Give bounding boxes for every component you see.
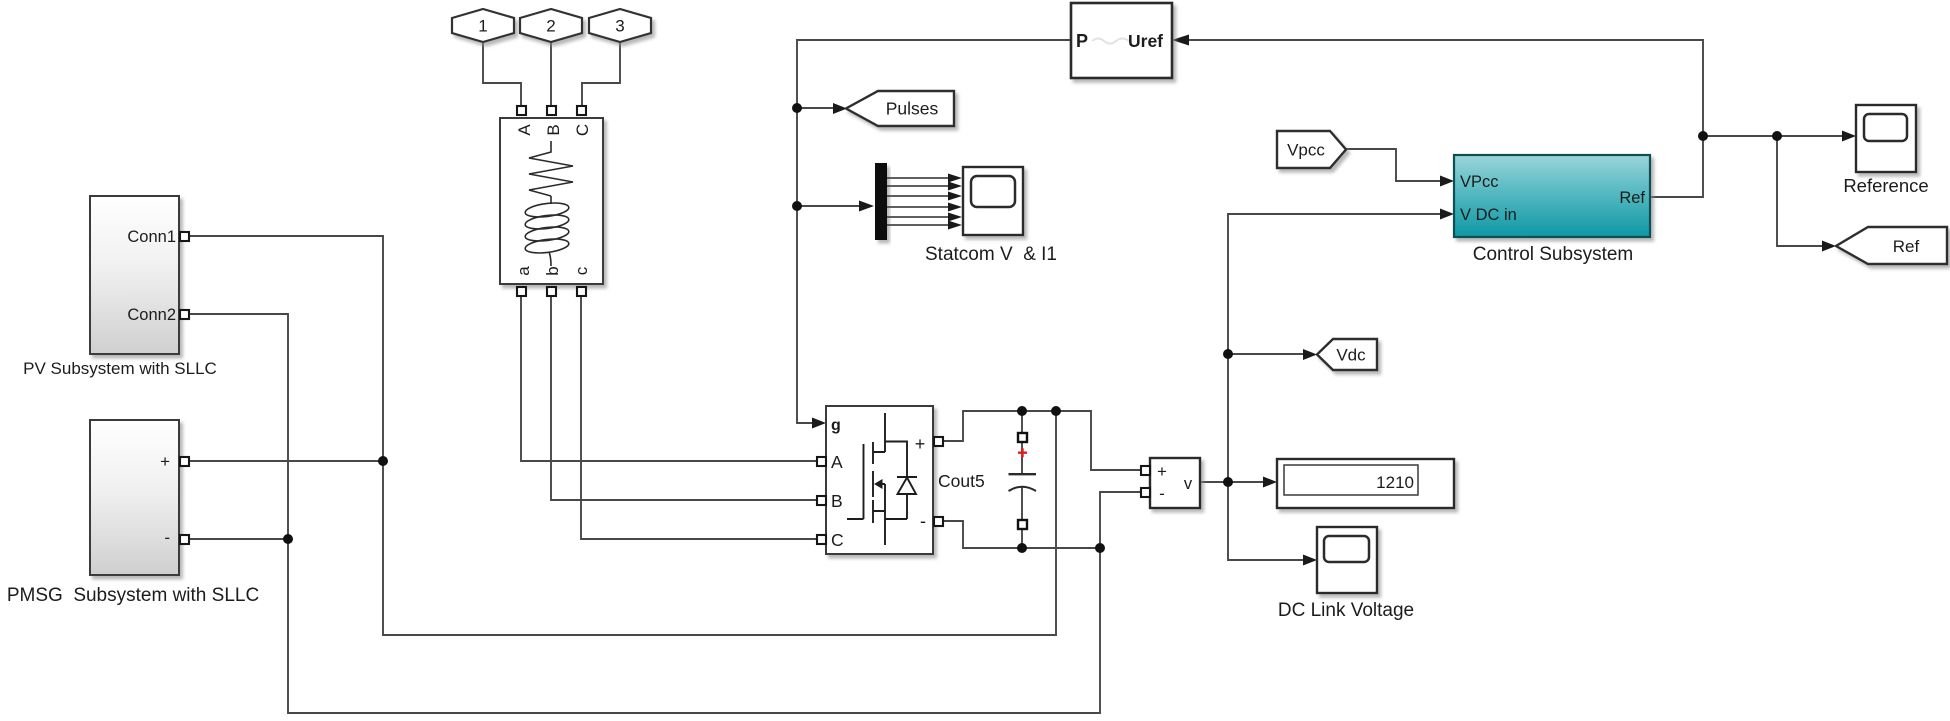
wire: riser to V DC in [1228,214,1441,482]
svg-text:V DC in: V DC in [1460,206,1517,224]
svg-text:A: A [515,124,534,136]
svg-text:Ref: Ref [1893,237,1920,256]
wire: Uref output down to bridge g [797,40,1071,423]
wire: PMSG - to node [188,538,288,540]
port pad bridge + [934,437,943,446]
resistor icon [529,141,573,196]
svg-text:b: b [543,266,562,275]
junction node Conn1/PMSG+ [378,456,388,466]
junction node voltmeter output [1223,477,1233,487]
wire: inport 3 to transformer C [582,42,620,108]
svg-text:B: B [544,124,563,135]
arrowhead into Ref tag [1822,241,1836,252]
inport 1 [452,9,514,42]
svg-text:Control Subsystem: Control Subsystem [1473,244,1634,265]
arrowhead into V DC in port [1440,209,1454,220]
port pad voltmeter - [1141,488,1150,497]
Control Subsystem block [1454,155,1650,265]
Vpcc from tag [1277,131,1346,168]
arrowhead into Vdc tag [1303,349,1317,360]
port pad transformer C [577,106,586,115]
junction node Ref/Uref [1698,131,1708,141]
svg-text:B: B [831,491,843,511]
arrowhead into display [1263,477,1277,488]
svg-text:DC Link Voltage: DC Link Voltage [1278,600,1414,621]
arrowhead into Reference scope [1842,131,1856,142]
display block [1277,459,1454,508]
Reference scope [1843,105,1928,196]
wire: branch to Vdc tag [1228,353,1304,355]
wire: inport 2 to transformer B [550,42,552,108]
wire: transformer c to bridge C [581,292,817,539]
svg-text:Cout5: Cout5 [938,471,985,491]
port pad PMSG - [180,535,189,544]
port pad PMSG + [180,457,189,466]
arrowhead into VPcc port [1440,176,1454,187]
three-phase series RL branch block [500,106,603,296]
port pad bridge B [817,496,826,505]
arrowhead into Pulses tag [833,103,847,114]
port pad transformer b [547,287,556,296]
svg-text:PV Subsystem with SLLC: PV Subsystem with SLLC [23,359,217,378]
svg-text:Conn2: Conn2 [127,306,176,324]
capacitor Cout5 [938,433,1036,529]
junction node capacitor top [1017,406,1027,416]
port pad voltmeter + [1141,466,1150,475]
wire: inport 1 to transformer A [483,42,521,108]
capacitor bottom plate arc [1009,487,1037,491]
svg-text:Uref: Uref [1128,31,1163,51]
svg-text:+: + [160,452,170,471]
Statcom V & I1 scope [925,167,1057,265]
junction node Conn2/PMSG- [283,534,293,544]
PMSG subsystem block [7,420,259,606]
svg-text:Vpcc: Vpcc [1287,141,1325,160]
svg-text:v: v [1184,475,1193,493]
port pad Conn1 [180,232,189,241]
wire: branch to Statcom mux [797,205,860,207]
port pad capacitor top [1018,433,1027,442]
svg-text:-: - [920,511,926,531]
Uref block [1071,3,1172,78]
Pulses goto tag [846,91,954,126]
svg-text:P: P [1076,31,1088,51]
svg-text:+: + [915,434,926,454]
svg-text:1: 1 [478,17,487,36]
IGBT bridge block [817,406,943,554]
wire: voltmeter output to display [1200,481,1264,483]
svg-text:C: C [831,530,844,550]
capacitor leads [1021,442,1023,520]
arrowhead into Uref block right side [1172,35,1189,46]
mux output signals [887,178,949,225]
svg-text:Vdc: Vdc [1336,346,1366,365]
IGBT icon [847,413,917,545]
wire: bridge + to capacitor top rail [942,411,1141,470]
svg-text:Statcom V & I1: Statcom V & I1 [925,244,1057,265]
svg-text:PMSG Subsystem with SLLC: PMSG Subsystem with SLLC [7,585,259,606]
port pad capacitor bottom [1018,520,1027,529]
junction node DC- bus bottom [1095,543,1105,553]
svg-text:1210: 1210 [1376,473,1414,492]
port pad bridge C [817,535,826,544]
svg-text:c: c [572,266,591,275]
Ref goto tag [1836,227,1947,264]
wire: Ref output up to Uref block [1189,40,1703,197]
svg-text:Pulses: Pulses [886,99,939,119]
wire: node to Reference scope [1703,135,1843,137]
wire: PMSG + to node [188,460,383,462]
port pad transformer c [577,287,586,296]
junction node DC+ bus top [1051,406,1061,416]
wire: node down to Ref tag [1777,136,1823,246]
svg-text:-: - [164,528,170,547]
wire: capacitor bottom lead [1021,530,1023,548]
svg-text:C: C [573,124,592,136]
svg-text:Conn1: Conn1 [127,228,176,246]
wire: capacitor top lead [1021,411,1023,432]
svg-text:VPcc: VPcc [1460,173,1499,191]
svg-text:a: a [514,266,533,276]
wire: branch to Pulses tag [797,107,834,109]
port pad bridge A [817,457,826,466]
arrowhead into Statcom mux [859,201,874,212]
junction node Reference/Ref split [1772,131,1782,141]
svg-text:3: 3 [615,17,624,36]
port pad transformer a [517,287,526,296]
voltage measurement block [1141,458,1200,508]
svg-text:A: A [831,452,843,472]
junction node Vdc branch [1223,349,1233,359]
junction node Statcom branch [792,201,802,211]
svg-text:g: g [831,417,841,434]
wire: Conn2 to DC- bus [188,314,1100,713]
wire: transformer b to bridge B [551,292,817,500]
port pad transformer A [517,106,526,115]
arrowhead into DC Link Voltage scope [1303,555,1317,566]
wire: branch to DC Link Voltage scope [1228,482,1304,560]
wire: Vpcc tag to VPcc input [1346,149,1441,181]
IGBT emitter arrow [874,479,883,489]
wire: Conn1 to DC+ bus [188,236,1056,635]
arrowhead into bridge g [812,418,826,429]
inport 2 [520,9,582,42]
inductor icon [524,196,569,266]
DC Link Voltage scope [1278,527,1414,621]
PV subsystem block [23,196,217,378]
port pad bridge - [934,517,943,526]
wire: voltmeter - to bottom rail [1100,492,1141,548]
svg-text:2: 2 [546,17,555,36]
port pad transformer B [547,106,556,115]
Statcom mux bar [875,163,887,240]
junction node Pulses branch [792,103,802,113]
inport 3 [589,9,651,42]
mux to scope arrowheads [948,174,962,230]
wire: transformer a to bridge A [521,292,817,461]
svg-text:-: - [1159,484,1165,503]
svg-text:Ref: Ref [1619,189,1645,207]
bridge diode triangle [898,478,917,495]
svg-text:+: + [1157,462,1167,481]
capacitor polarity + [1018,448,1027,457]
svg-text:Reference: Reference [1843,175,1928,196]
capacitor top plate [1009,473,1037,475]
port pad Conn2 [180,310,189,319]
wire: bridge - to capacitor bottom rail [942,521,1100,548]
junction node capacitor bottom [1017,543,1027,553]
Vdc goto tag [1317,339,1377,370]
